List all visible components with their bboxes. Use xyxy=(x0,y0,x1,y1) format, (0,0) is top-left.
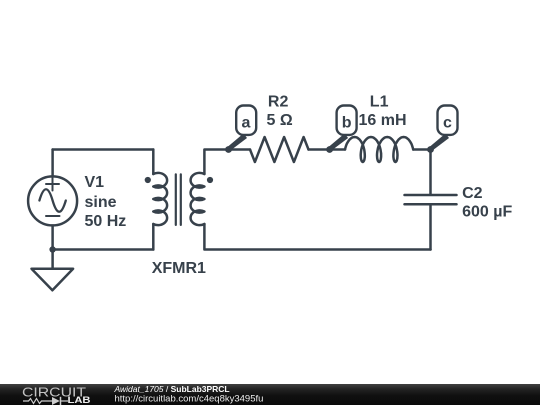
inductor L1 xyxy=(345,137,413,162)
svg-text:http://circuitlab.com/c4eq8ky3: http://circuitlab.com/c4eq8ky3495fu xyxy=(115,393,264,404)
svg-text:600 µF: 600 µF xyxy=(462,204,512,221)
svg-text:LAB: LAB xyxy=(68,395,91,405)
resistor R2 xyxy=(250,137,309,162)
wire primary top xyxy=(53,148,154,151)
junction node a xyxy=(225,146,232,153)
CircuitLab logo resistor zigzag xyxy=(23,396,68,404)
svg-text:a: a xyxy=(242,115,251,132)
wire primary bottom xyxy=(53,248,154,251)
voltage source V1 xyxy=(28,176,77,225)
svg-text:XFMR1: XFMR1 xyxy=(152,260,206,277)
svg-text:50 Hz: 50 Hz xyxy=(85,213,127,230)
transformer XFMR1 xyxy=(153,173,204,225)
node b flag xyxy=(329,106,357,151)
wire resistor to node b xyxy=(309,148,330,151)
wire secondary top stub xyxy=(204,150,228,175)
wire primary right stub top xyxy=(152,150,155,175)
wire node b to inductor xyxy=(330,148,345,151)
svg-text:R2: R2 xyxy=(268,94,289,111)
CircuitLab logo diode xyxy=(52,397,60,405)
ground xyxy=(32,250,74,291)
junction dot ground node xyxy=(49,246,55,252)
svg-text:L1: L1 xyxy=(370,94,389,111)
wire node c down to capacitor xyxy=(429,150,432,194)
svg-text:sine: sine xyxy=(85,194,117,211)
wire node a to resistor xyxy=(229,148,251,151)
transformer secondary phase dot xyxy=(207,177,213,183)
svg-text:c: c xyxy=(443,115,452,132)
wire secondary bottom xyxy=(204,224,430,250)
node c flag xyxy=(430,106,458,151)
wire capacitor to bottom xyxy=(429,206,432,250)
junction node c xyxy=(427,146,434,153)
svg-text:16 mH: 16 mH xyxy=(359,112,407,129)
junction node b xyxy=(326,146,333,153)
wire inductor to node c xyxy=(413,148,430,151)
capacitor C2 xyxy=(405,195,457,204)
wire V1 top stub xyxy=(51,150,54,176)
wire V1 bottom stub xyxy=(51,226,54,249)
svg-text:V1: V1 xyxy=(85,174,105,191)
footer bar xyxy=(0,384,540,405)
node a flag xyxy=(228,106,256,151)
transformer primary phase dot xyxy=(145,177,151,183)
svg-text:C2: C2 xyxy=(462,185,483,202)
svg-text:b: b xyxy=(342,115,352,132)
wire primary right stub bottom xyxy=(152,224,155,250)
svg-text:5 Ω: 5 Ω xyxy=(267,112,293,129)
